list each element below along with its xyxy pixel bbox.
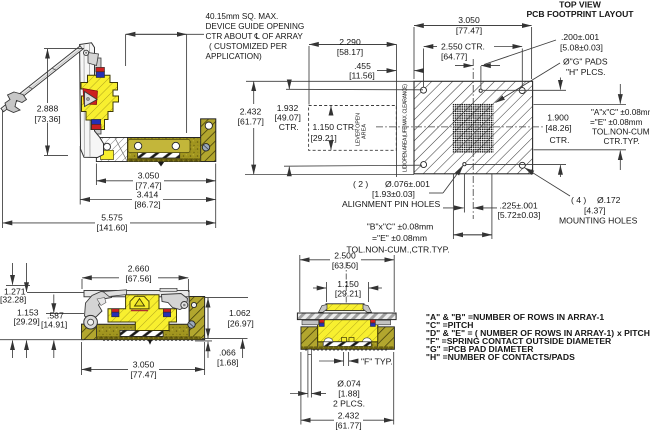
svg-text:[4.37]: [4.37]	[584, 206, 606, 216]
svg-text:[1.68]: [1.68]	[217, 358, 239, 368]
svg-text:"B"x"C" ±0.08mm: "B"x"C" ±0.08mm	[367, 222, 434, 232]
svg-text:Ø.074: Ø.074	[337, 379, 361, 389]
svg-text:[63.50]: [63.50]	[332, 261, 358, 271]
svg-text:[1.88]: [1.88]	[338, 389, 360, 399]
svg-text:2.432: 2.432	[338, 411, 360, 421]
svg-text:[14.91]: [14.91]	[41, 320, 67, 330]
svg-text:[29.21]: [29.21]	[335, 289, 361, 299]
svg-text:.455: .455	[354, 61, 371, 71]
svg-text:( 4 ): ( 4 )	[571, 195, 586, 205]
svg-text:Ø"G" PADS: Ø"G" PADS	[563, 57, 608, 67]
svg-text:1.150 CTR.: 1.150 CTR.	[313, 122, 357, 132]
svg-text:( CUSTOMIZED PER: ( CUSTOMIZED PER	[209, 42, 287, 51]
svg-text:3.050: 3.050	[458, 15, 480, 25]
svg-text:[61.77]: [61.77]	[335, 421, 361, 431]
svg-text:"A"x"C" ±0.08mm: "A"x"C" ±0.08mm	[591, 108, 650, 117]
svg-text:ALIGNMENT PIN HOLES: ALIGNMENT PIN HOLES	[342, 199, 440, 209]
svg-text:.066: .066	[219, 348, 236, 358]
svg-text:[49.07]: [49.07]	[275, 113, 301, 123]
svg-text:3.050: 3.050	[138, 171, 160, 181]
svg-text:40.15mm SQ. MAX.: 40.15mm SQ. MAX.	[206, 12, 279, 21]
svg-text:CTR.: CTR.	[549, 135, 569, 145]
svg-text:[5.08±0.03]: [5.08±0.03]	[560, 43, 603, 53]
svg-text:Ø.076±.001: Ø.076±.001	[385, 179, 430, 189]
svg-text:[26.97]: [26.97]	[228, 319, 254, 329]
svg-text:.200±.001: .200±.001	[561, 32, 599, 42]
svg-text:MOUNTING HOLES: MOUNTING HOLES	[559, 216, 638, 226]
svg-text:="E" ±0.08mm: ="E" ±0.08mm	[590, 118, 643, 127]
svg-text:="E" ±0.08mm: ="E" ±0.08mm	[372, 233, 427, 243]
svg-text:2 PLCS.: 2 PLCS.	[333, 399, 365, 409]
svg-text:TOL.NON-CUM.,: TOL.NON-CUM.,	[592, 127, 650, 136]
svg-text:1.150: 1.150	[337, 279, 359, 289]
svg-text:( 2 ): ( 2 )	[353, 179, 368, 189]
svg-text:PCB FOOTPRINT LAYOUT: PCB FOOTPRINT LAYOUT	[526, 9, 634, 19]
svg-text:AREA: AREA	[362, 124, 368, 139]
svg-text:3.414: 3.414	[137, 190, 159, 200]
svg-text:[5.72±0.03]: [5.72±0.03]	[498, 210, 541, 220]
svg-text:[58.17]: [58.17]	[337, 47, 363, 57]
svg-text:LID/OPEN AREA (LIFE MAX. CLEAR: LID/OPEN AREA (LIFE MAX. CLEARANCE)	[403, 84, 409, 172]
svg-text:CTR.TYP.: CTR.TYP.	[604, 137, 640, 146]
svg-text:[73.36]: [73.36]	[34, 114, 60, 124]
svg-text:[61.77]: [61.77]	[238, 117, 264, 127]
svg-text:[29.29]: [29.29]	[14, 317, 40, 327]
svg-text:[64.77]: [64.77]	[441, 52, 467, 62]
svg-text:DEVICE GUIDE OPENING: DEVICE GUIDE OPENING	[206, 22, 305, 31]
svg-text:1.900: 1.900	[547, 113, 569, 123]
svg-text:2.550 CTR.: 2.550 CTR.	[441, 42, 485, 52]
svg-text:[1.93±0.03]: [1.93±0.03]	[372, 189, 415, 199]
svg-text:[141.60]: [141.60]	[96, 223, 127, 233]
svg-text:[77.47]: [77.47]	[130, 370, 156, 380]
svg-text:[32.28]: [32.28]	[0, 295, 26, 305]
svg-text:[86.72]: [86.72]	[134, 200, 160, 210]
svg-text:[11.56]: [11.56]	[349, 71, 375, 81]
svg-text:[77.47]: [77.47]	[456, 26, 482, 36]
svg-text:Ø.172: Ø.172	[597, 195, 621, 205]
svg-text:[48.26]: [48.26]	[545, 123, 571, 133]
svg-text:2.290: 2.290	[339, 37, 361, 47]
svg-text:CTR.: CTR.	[279, 122, 299, 132]
svg-text:1.932: 1.932	[277, 103, 299, 113]
svg-text:3.050: 3.050	[133, 360, 155, 370]
svg-text:2.660: 2.660	[128, 264, 150, 274]
svg-text:2.500: 2.500	[334, 251, 356, 261]
svg-text:CTR ABOUT ℄ OF ARRAY: CTR ABOUT ℄ OF ARRAY	[206, 32, 304, 41]
svg-text:"H" PLCS.: "H" PLCS.	[566, 67, 606, 77]
svg-text:1.062: 1.062	[229, 308, 251, 318]
svg-text:x PITCH: x PITCH	[617, 328, 650, 338]
svg-text:2.432: 2.432	[240, 107, 262, 117]
svg-text:"F" TYP.: "F" TYP.	[361, 357, 393, 367]
svg-text:TOL.NON-CUM.,CTR.TYP.: TOL.NON-CUM.,CTR.TYP.	[346, 245, 449, 255]
svg-text:5.575: 5.575	[101, 213, 123, 223]
svg-text:2.888: 2.888	[37, 104, 59, 114]
svg-text:[29.21]: [29.21]	[311, 133, 337, 143]
svg-text:.225±.001: .225±.001	[500, 201, 538, 211]
svg-text:APPLICATION): APPLICATION)	[206, 52, 263, 61]
svg-text:[67.56]: [67.56]	[125, 274, 151, 284]
svg-text:"H" =NUMBER OF CONTACTS/PADS: "H" =NUMBER OF CONTACTS/PADS	[426, 352, 575, 362]
